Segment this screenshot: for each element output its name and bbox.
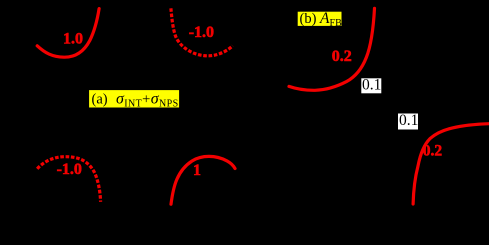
svg-text:0.1: 0.1	[399, 112, 418, 129]
svg-text:0.2: 0.2	[423, 142, 443, 159]
svg-text:-1.0: -1.0	[57, 161, 82, 178]
svg-text:0.2: 0.2	[332, 48, 352, 65]
svg-text:1.0: 1.0	[63, 31, 83, 48]
svg-text:-1.0: -1.0	[189, 24, 214, 41]
svg-text:(a): (a)	[92, 92, 108, 108]
svg-text:1: 1	[193, 162, 201, 179]
svg-text:0.1: 0.1	[362, 77, 381, 94]
